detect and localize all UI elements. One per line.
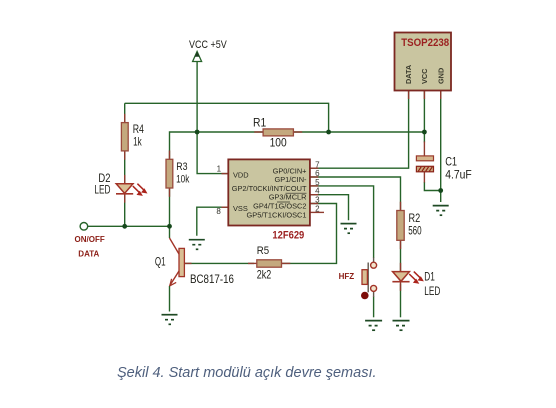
svg-text:VCC: VCC [420, 68, 429, 84]
svg-text:2k2: 2k2 [257, 269, 272, 281]
svg-text:VCC +5V: VCC +5V [189, 39, 227, 51]
svg-text:GP1/CIN-: GP1/CIN- [274, 175, 307, 184]
svg-text:GND: GND [436, 68, 445, 84]
svg-text:Q1: Q1 [155, 256, 166, 269]
svg-text:8: 8 [216, 207, 221, 216]
svg-text:GP0/CIN+: GP0/CIN+ [273, 166, 307, 175]
svg-text:GP5/T1CKI/OSC1: GP5/T1CKI/OSC1 [247, 210, 307, 219]
svg-text:HFZ: HFZ [339, 272, 355, 281]
svg-text:R4: R4 [133, 124, 144, 136]
svg-text:R5: R5 [257, 244, 269, 257]
svg-text:10k: 10k [176, 173, 189, 186]
svg-text:DATA: DATA [78, 250, 99, 259]
svg-text:1k: 1k [133, 136, 142, 149]
svg-text:BC817-16: BC817-16 [190, 273, 234, 286]
svg-text:7: 7 [315, 160, 320, 169]
svg-text:R3: R3 [176, 161, 188, 173]
svg-text:R2: R2 [409, 213, 421, 225]
svg-text:GP4/T1G/OSC2: GP4/T1G/OSC2 [253, 202, 306, 211]
svg-text:GP3/MCLR: GP3/MCLR [269, 193, 307, 202]
svg-text:GP2/T0CKI/INT/COUT: GP2/T0CKI/INT/COUT [232, 184, 307, 193]
svg-text:VDD: VDD [233, 171, 249, 180]
svg-text:12F629: 12F629 [272, 230, 304, 242]
svg-text:100: 100 [270, 137, 287, 150]
svg-text:4: 4 [315, 187, 320, 196]
svg-text:DATA: DATA [404, 64, 413, 84]
svg-text:1: 1 [217, 165, 222, 174]
svg-text:2: 2 [315, 204, 320, 213]
svg-text:C1: C1 [445, 157, 457, 169]
svg-text:LED: LED [424, 286, 440, 299]
svg-text:4.7uF: 4.7uF [445, 169, 472, 182]
svg-text:6: 6 [315, 169, 320, 178]
svg-text:5: 5 [315, 178, 320, 187]
svg-text:R1: R1 [253, 117, 266, 130]
svg-text:TSOP2238: TSOP2238 [401, 38, 449, 50]
svg-text:D1: D1 [424, 271, 435, 284]
svg-text:LED: LED [94, 184, 110, 197]
svg-text:560: 560 [408, 225, 422, 238]
svg-text:ON/OFF: ON/OFF [75, 235, 105, 244]
svg-text:Şekil 4. Start modülü açık dev: Şekil 4. Start modülü açık devre şeması. [117, 365, 377, 381]
svg-text:3: 3 [315, 196, 320, 205]
